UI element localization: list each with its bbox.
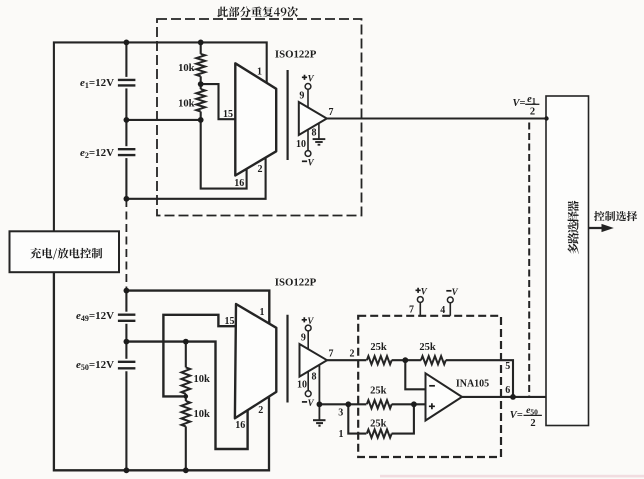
svg-text:2: 2 [258, 405, 263, 416]
svg-text:2: 2 [530, 107, 535, 118]
svg-text:1: 1 [257, 66, 262, 77]
svg-text:5: 5 [505, 361, 510, 372]
svg-text:V: V [308, 398, 315, 408]
svg-text:10k: 10k [178, 63, 195, 74]
svg-text:V: V [308, 73, 315, 83]
svg-text:7: 7 [409, 304, 414, 315]
svg-text:10k: 10k [178, 99, 195, 110]
svg-text:7: 7 [329, 107, 334, 118]
svg-text:16: 16 [234, 178, 244, 189]
svg-text:7: 7 [329, 348, 334, 359]
svg-text:ISO122P: ISO122P [275, 49, 317, 61]
svg-text:8: 8 [312, 371, 317, 382]
svg-text:25k: 25k [370, 418, 387, 429]
svg-text:e1: e1 [527, 94, 536, 106]
svg-text:6: 6 [505, 385, 510, 396]
svg-text:16: 16 [235, 420, 245, 431]
svg-text:V=: V= [513, 98, 526, 109]
svg-text:3: 3 [338, 407, 343, 418]
svg-text:8: 8 [312, 127, 317, 138]
svg-text:4: 4 [440, 305, 445, 316]
svg-text:V: V [421, 286, 428, 296]
svg-text:25k: 25k [370, 386, 387, 397]
svg-text:1: 1 [260, 307, 265, 318]
svg-text:V: V [452, 287, 459, 297]
svg-text:15: 15 [225, 316, 235, 327]
svg-text:10k: 10k [194, 374, 211, 385]
svg-text:25k: 25k [419, 342, 436, 353]
svg-text:10k: 10k [194, 409, 211, 420]
svg-text:ISO122P: ISO122P [275, 277, 317, 289]
svg-text:25k: 25k [370, 342, 387, 353]
svg-text:9: 9 [299, 91, 304, 102]
svg-text:2: 2 [258, 164, 263, 175]
svg-text:INA105: INA105 [456, 378, 489, 389]
svg-text:2: 2 [530, 418, 535, 429]
svg-text:15: 15 [223, 109, 233, 120]
svg-text:V=: V= [510, 410, 523, 421]
svg-text:V: V [307, 316, 314, 326]
svg-text:V: V [308, 157, 315, 167]
svg-text:2: 2 [350, 349, 355, 360]
svg-text:1: 1 [339, 429, 344, 440]
svg-text:9: 9 [301, 332, 306, 343]
svg-text:10: 10 [297, 380, 307, 391]
svg-text:10: 10 [296, 139, 306, 150]
